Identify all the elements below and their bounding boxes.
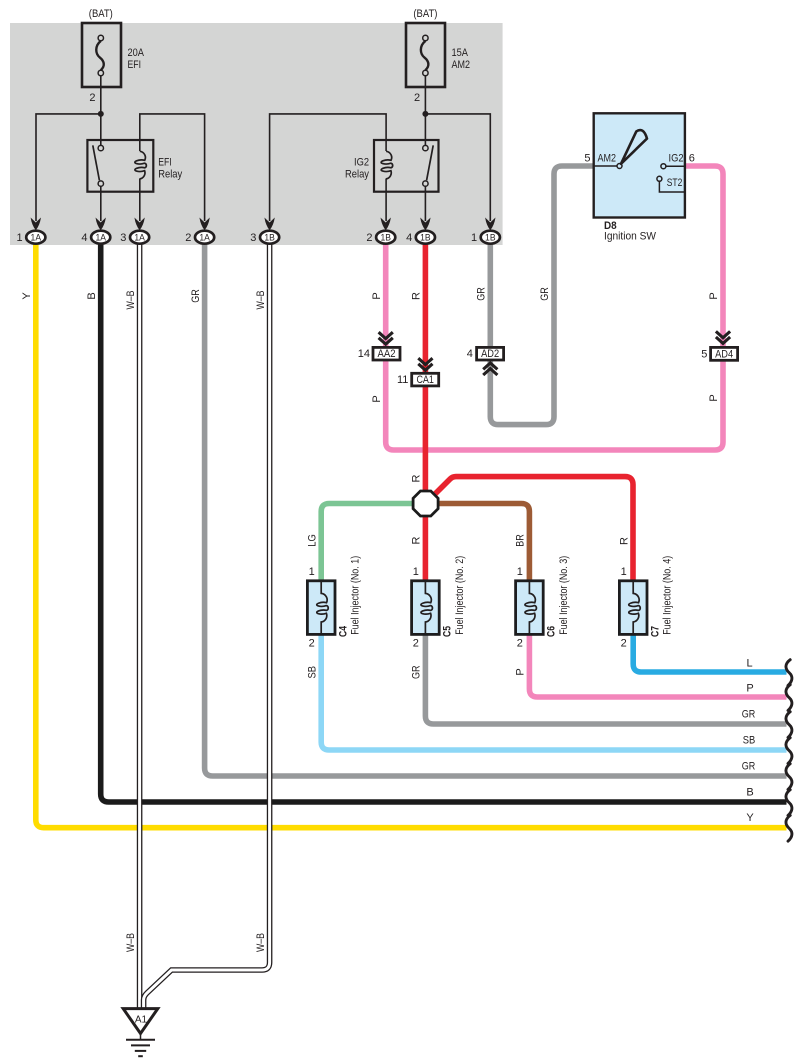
svg-text:4: 4: [81, 232, 87, 244]
svg-text:1: 1: [517, 566, 523, 578]
connector chevron AA2 (down): [379, 332, 393, 344]
relay IG2: [374, 140, 439, 192]
svg-text:20A: 20A: [128, 47, 145, 59]
svg-text:2: 2: [366, 232, 372, 244]
svg-text:1: 1: [16, 232, 22, 244]
dart and oval 1 (1B): [485, 218, 495, 231]
svg-text:ST2: ST2: [667, 177, 683, 189]
svg-text:1A: 1A: [95, 232, 106, 243]
dart and oval 2 (1A): [199, 218, 209, 231]
dart and oval 3 (1A): [134, 218, 144, 231]
svg-text:C7: C7: [649, 626, 661, 637]
wire P: injector C6 pin2 to right edge: [529, 632, 786, 697]
fuel injector C5: [412, 581, 440, 635]
connector AD2: [477, 347, 504, 360]
svg-text:C5: C5: [442, 626, 454, 637]
svg-text:1A: 1A: [134, 232, 145, 243]
svg-text:3: 3: [250, 232, 256, 244]
svg-text:1: 1: [621, 566, 627, 578]
svg-text:P: P: [515, 668, 527, 675]
svg-text:CA1: CA1: [416, 374, 434, 386]
svg-text:A1: A1: [135, 1015, 148, 1026]
svg-text:GR: GR: [411, 666, 423, 680]
svg-text:2: 2: [413, 638, 419, 650]
svg-text:B: B: [86, 292, 98, 299]
wire IG2 switch bottom to oval 4-1B: [424, 186, 426, 221]
relay EFI: [87, 140, 153, 192]
svg-text:2: 2: [89, 92, 95, 104]
wire green LG: node to injector C4 pin1: [321, 504, 420, 583]
wire IG2 coil top branch to oval 3-1B: [270, 114, 387, 221]
connector chevron AD2 (up): [483, 363, 497, 375]
svg-text:P: P: [371, 395, 383, 402]
svg-text:W–B: W–B: [255, 933, 267, 952]
dart and oval 3 (1B): [264, 218, 274, 231]
wire fuse2 to relay: [424, 76, 426, 146]
svg-text:1B: 1B: [380, 232, 391, 243]
connector chevron AD4 (down): [716, 331, 730, 343]
svg-text:P: P: [746, 683, 753, 695]
connector AA2: [373, 347, 400, 360]
continuation mark wire GR: [786, 712, 792, 738]
svg-text:C6: C6: [546, 626, 558, 637]
fuel injector C7: [619, 581, 647, 635]
svg-text:Fuel Injector (No. 3): Fuel Injector (No. 3): [558, 556, 570, 635]
continuation mark wire SB: [786, 738, 792, 764]
ignition switch D8: [594, 113, 685, 217]
wire GR: injector C5 pin2 to right edge: [425, 632, 786, 724]
wire red R branch: node to injector C7 pin1: [433, 477, 634, 582]
svg-text:W–B: W–B: [255, 291, 267, 310]
svg-text:(BAT): (BAT): [89, 8, 113, 20]
wire black B: oval 4-1A to right edge: [101, 238, 787, 802]
D8 AM2 pin: [594, 165, 617, 167]
svg-text:2: 2: [414, 92, 420, 104]
fuel injector C6: [516, 581, 544, 635]
wire EFI switch bottom to oval 4-1A: [100, 186, 102, 221]
wire W-B: oval 3-1A to ground A1: [137, 238, 143, 1009]
svg-text:1B: 1B: [485, 232, 496, 243]
svg-text:SB: SB: [306, 666, 318, 679]
rotated wire labels: [21, 287, 720, 952]
svg-text:R: R: [618, 537, 630, 545]
wire yellow Y: oval 1-1A to right edge: [36, 238, 787, 828]
wire SB: injector C4 pin2 to right edge: [321, 632, 786, 750]
svg-text:W–B: W–B: [125, 933, 137, 952]
injector pin numbers and designators: [309, 566, 627, 650]
svg-text:2: 2: [621, 638, 627, 650]
svg-text:P: P: [708, 292, 720, 299]
ground symbol A1: [123, 1009, 158, 1057]
junction dot fuse2: [422, 111, 428, 117]
svg-text:GR: GR: [742, 709, 756, 721]
connector AD4: [711, 347, 738, 360]
svg-text:GR: GR: [742, 761, 756, 773]
connector chevron CA1 (down): [418, 358, 432, 370]
fuel injector C4: [307, 581, 335, 635]
gray panel: [10, 23, 503, 245]
svg-text:R: R: [411, 536, 423, 544]
svg-text:6: 6: [689, 153, 695, 165]
svg-text:P: P: [708, 394, 720, 401]
dart and oval 4 (1A): [96, 218, 106, 231]
dart and oval 4 (1B): [420, 218, 430, 231]
svg-text:14: 14: [358, 348, 370, 360]
wire branch to oval 1-1B: [425, 114, 490, 221]
D8 IG2 pin: [661, 164, 666, 169]
connector ovals row: [16, 218, 499, 245]
svg-text:LG: LG: [306, 534, 318, 547]
svg-text:AA2: AA2: [378, 348, 396, 360]
svg-text:Y: Y: [21, 292, 33, 300]
svg-text:2: 2: [309, 638, 315, 650]
svg-text:1A: 1A: [199, 232, 210, 243]
svg-text:11: 11: [397, 374, 408, 386]
svg-text:1B: 1B: [264, 232, 275, 243]
svg-text:AM2: AM2: [452, 59, 471, 71]
svg-text:4: 4: [406, 232, 412, 244]
svg-text:GR: GR: [190, 289, 202, 303]
svg-text:AD2: AD2: [481, 348, 499, 360]
wire branch to oval 1-1A: [36, 114, 101, 221]
wire W-B: oval 3-1B to ground A1: [144, 238, 270, 1009]
wire pink P: D8 IG2 pin to AD4 to AA2 to oval 2-1B: [386, 166, 723, 450]
wire gray GR: oval 2-1A to right edge: [205, 238, 787, 776]
continuation mark wire B: [786, 790, 792, 816]
svg-text:GR: GR: [476, 287, 488, 301]
junction dot fuse1: [98, 111, 104, 117]
continuation mark wire P: [786, 685, 792, 711]
svg-text:4: 4: [467, 348, 473, 360]
svg-text:IG2: IG2: [669, 153, 684, 165]
svg-text:5: 5: [584, 153, 590, 165]
svg-text:AD4: AD4: [715, 349, 733, 361]
svg-text:IG2: IG2: [354, 157, 369, 169]
svg-text:BR: BR: [515, 534, 527, 547]
svg-text:L: L: [746, 658, 752, 670]
wire L blue: injector C7 pin2 to right edge: [633, 632, 786, 672]
svg-text:R: R: [411, 292, 423, 300]
svg-text:1: 1: [309, 566, 315, 578]
wire red R: oval 4-1B through CA1 and node to injector C5 pin1: [423, 238, 429, 582]
svg-text:P: P: [371, 292, 383, 299]
svg-text:3: 3: [120, 232, 126, 244]
svg-text:GR: GR: [539, 287, 551, 301]
svg-text:AM2: AM2: [598, 153, 617, 165]
svg-text:Fuel Injector (No. 2): Fuel Injector (No. 2): [454, 556, 466, 635]
wire brown BR: node to injector C6 pin1: [431, 504, 529, 583]
fuse F1 20A EFI: [82, 23, 121, 87]
svg-text:1A: 1A: [31, 232, 42, 243]
svg-text:W–B: W–B: [125, 291, 137, 310]
connector CA1: [412, 373, 439, 386]
svg-text:5: 5: [701, 349, 707, 361]
wire EFI coil bottom to oval 3-1A: [139, 179, 141, 222]
continuation mark wire Y: [786, 815, 792, 841]
wire fuse1 to relay: [100, 76, 102, 146]
svg-text:1: 1: [413, 566, 419, 578]
wire IG2 coil bottom to oval 2-1B: [385, 179, 387, 222]
svg-text:Ignition SW: Ignition SW: [604, 231, 657, 243]
wire gray GR: D8 AM2 pin to AD2 to oval 1-1B: [490, 166, 593, 425]
svg-text:Fuel Injector (No. 1): Fuel Injector (No. 1): [350, 556, 362, 635]
continuation mark wire L: [786, 660, 792, 686]
svg-text:1B: 1B: [420, 232, 431, 243]
svg-text:Relay: Relay: [345, 169, 369, 181]
svg-text:2: 2: [517, 638, 523, 650]
continuation mark wire GR2: [786, 764, 792, 790]
svg-text:Fuel Injector (No. 4): Fuel Injector (No. 4): [662, 556, 674, 635]
svg-text:1: 1: [471, 232, 477, 244]
svg-text:2: 2: [185, 232, 191, 244]
dart and oval 2 (1B): [381, 218, 391, 231]
right end wire labels: [742, 658, 756, 825]
wire EFI coil top branch to oval 2-1A: [140, 114, 205, 221]
svg-text:15A: 15A: [452, 47, 469, 59]
dart and oval 1 (1A): [31, 218, 41, 231]
svg-text:B: B: [746, 787, 753, 799]
svg-text:EFI: EFI: [128, 59, 142, 71]
svg-text:Y: Y: [746, 812, 754, 824]
svg-text:R: R: [411, 474, 423, 482]
fuse F2 15A AM2: [406, 23, 445, 87]
svg-text:Relay: Relay: [158, 169, 182, 181]
svg-text:SB: SB: [743, 735, 756, 747]
D8 lever: [621, 130, 647, 164]
svg-text:EFI: EFI: [158, 157, 172, 169]
D8 ST2 pin: [657, 176, 662, 181]
node octagon junction: [413, 491, 438, 516]
svg-text:(BAT): (BAT): [413, 8, 437, 20]
svg-text:C4: C4: [338, 625, 350, 637]
